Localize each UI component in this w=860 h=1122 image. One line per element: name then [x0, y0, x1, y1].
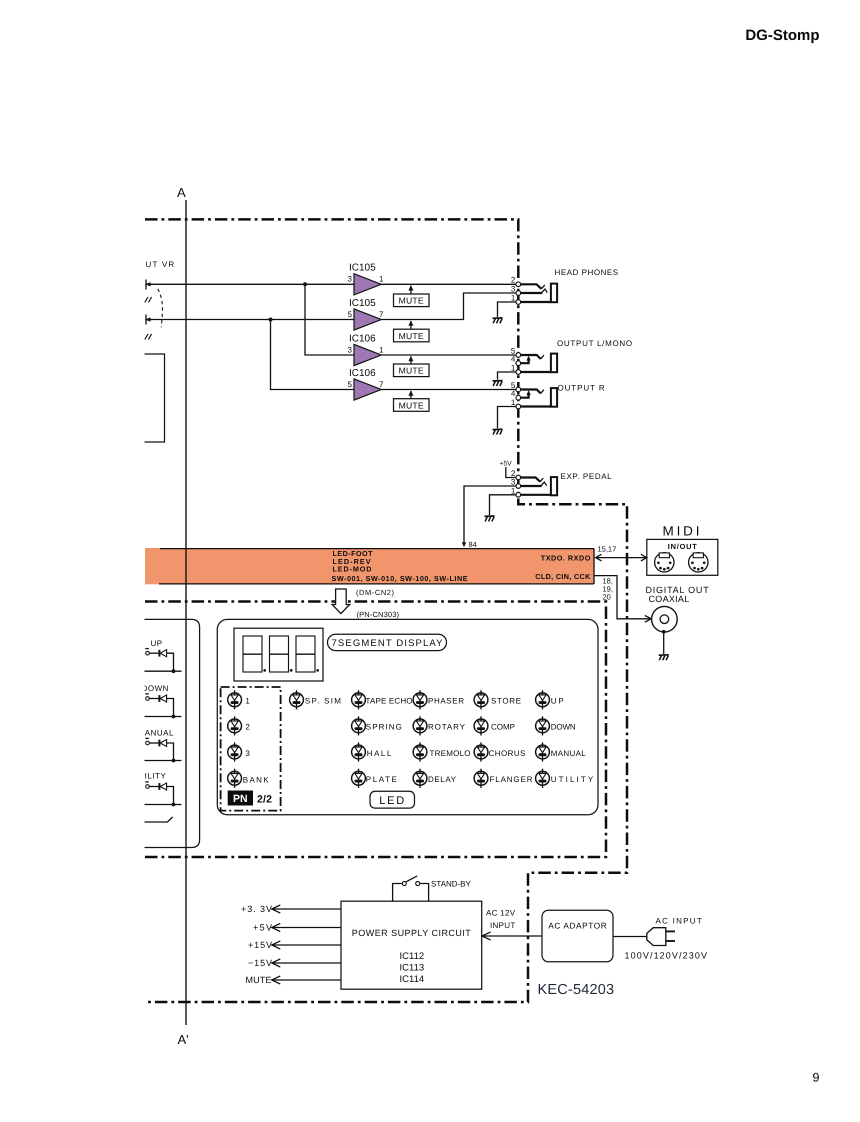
- LED MANUAL: [536, 742, 550, 761]
- rail MUTE: [246, 975, 342, 985]
- node UTILITY junction: [172, 803, 176, 807]
- wire IC105a out to HP pin2: [381, 283, 516, 285]
- bus border right: [593, 549, 595, 584]
- AC plug: [647, 928, 675, 946]
- diode D-DOWN: [159, 695, 166, 702]
- svg-text:1: 1: [511, 294, 516, 303]
- LED UTILITY: [536, 769, 550, 788]
- ground (EXP): [485, 516, 495, 521]
- wire VR2 to IC105 pin5: [151, 319, 355, 321]
- block (cut at page edge): [145, 354, 165, 442]
- label PN 2/2: [228, 791, 272, 806]
- wire OUTR pin1 to ground: [498, 407, 516, 429]
- svg-text:HEAD PHONES: HEAD PHONES: [555, 268, 620, 277]
- svg-text:7: 7: [379, 380, 384, 389]
- svg-text:MUTE: MUTE: [399, 296, 424, 306]
- LED STORE: [474, 690, 488, 709]
- svg-text:DG-Stomp: DG-Stomp: [745, 27, 819, 44]
- svg-text:7SEGMENT DISPLAY: 7SEGMENT DISPLAY: [332, 638, 444, 649]
- ground (OUTR): [493, 429, 503, 434]
- MUTE box 2: [394, 320, 430, 342]
- wire adaptor to plug: [613, 936, 647, 938]
- svg-text:CHORUS: CHORUS: [489, 749, 526, 758]
- svg-text:5: 5: [348, 380, 353, 389]
- jack OUTPUT R: [511, 381, 606, 407]
- svg-text:1: 1: [511, 398, 516, 407]
- svg-text:PHASER: PHASER: [428, 697, 464, 706]
- svg-text:AC ADAPTOR: AC ADAPTOR: [548, 920, 607, 930]
- LED DELAY: [413, 769, 427, 788]
- jack HEAD PHONES: [511, 268, 619, 303]
- switch row MANUAL: [138, 729, 174, 745]
- wire D-DOWN to node: [167, 699, 174, 717]
- wire junction down to IC106 pin3: [305, 284, 355, 355]
- svg-text:POWER SUPPLY CIRCUIT: POWER SUPPLY CIRCUIT: [352, 928, 472, 938]
- 7seg digit 3: [296, 636, 319, 672]
- bus highlight DM-CN2 (orange): [145, 548, 594, 584]
- svg-text:2: 2: [511, 276, 516, 285]
- svg-text:CLD, CIN, CCK: CLD, CIN, CCK: [535, 572, 591, 581]
- svg-text:OUTPUT R: OUTPUT R: [558, 384, 606, 393]
- wire D-MANUAL to node: [167, 743, 174, 761]
- DIN socket MIDI IN: [655, 553, 674, 572]
- wire D-UP to node: [167, 653, 174, 671]
- svg-text:1: 1: [511, 486, 516, 495]
- jack EXP. PEDAL: [511, 469, 613, 495]
- svg-text:2/2: 2/2: [257, 793, 272, 805]
- svg-text:2: 2: [245, 723, 250, 732]
- wire OUTL pin1 to ground: [498, 372, 516, 380]
- wire coaxial shield to ground: [663, 632, 665, 654]
- rail +3.3V: [241, 904, 341, 914]
- 7seg display outer box: [234, 628, 323, 681]
- svg-text:FLANGER: FLANGER: [490, 775, 533, 784]
- svg-text:3: 3: [511, 477, 516, 486]
- pin circles OUTL: [516, 353, 521, 375]
- connector arrow DM-CN2 to PN-CN303: [332, 589, 350, 614]
- jack OUTPUT L/MONO: [511, 339, 633, 373]
- svg-text:IC113: IC113: [400, 963, 425, 974]
- svg-text:15,17: 15,17: [598, 544, 617, 553]
- section line A-A': [185, 200, 187, 1025]
- DIN socket MIDI OUT: [689, 553, 708, 572]
- +5V supply (EXP): [499, 461, 515, 478]
- wire HP pin1 to ground: [498, 302, 516, 317]
- LED SP.SIM: [290, 690, 304, 709]
- diode D-MANUAL: [159, 740, 166, 747]
- MUTE box 4: [394, 390, 430, 411]
- label 7SEGMENT DISPLAY: [328, 634, 447, 650]
- svg-text:HALL: HALL: [367, 749, 392, 758]
- ground (VR lower): [145, 334, 152, 340]
- pin circles HP: [516, 282, 521, 304]
- MUTE box 3: [394, 356, 430, 377]
- svg-text:9: 9: [813, 1071, 820, 1085]
- svg-text:4: 4: [511, 389, 516, 398]
- wire row MANUAL bus: [145, 760, 182, 762]
- op-amp IC106 a: [348, 333, 384, 365]
- svg-text:MUTE: MUTE: [399, 400, 424, 410]
- board outline upper (dash-dot): [145, 219, 627, 1002]
- op-amp IC105 a: [348, 263, 384, 295]
- AC ADAPTOR box: [542, 910, 613, 962]
- svg-text:PN: PN: [233, 793, 248, 805]
- diode D-UP: [159, 650, 166, 657]
- svg-text:DELAY: DELAY: [428, 775, 457, 784]
- svg-text:84: 84: [469, 540, 477, 549]
- switch row DOWN: [142, 684, 169, 700]
- svg-text:MUTE: MUTE: [246, 975, 272, 985]
- svg-text:MUTE: MUTE: [399, 331, 424, 341]
- svg-text:MANUAL: MANUAL: [551, 749, 587, 758]
- LED BANK: [228, 769, 242, 788]
- wire IC105b out to HP pin3: [381, 293, 516, 320]
- svg-text:IN/OUT: IN/OUT: [668, 542, 697, 551]
- LED HALL: [352, 742, 366, 761]
- pin circles EXP: [516, 475, 521, 497]
- svg-text:+3. 3V: +3. 3V: [241, 904, 272, 914]
- LED PHASER: [413, 690, 427, 709]
- svg-text:A: A: [177, 185, 186, 200]
- switch board box (cut at page edge): [145, 619, 200, 847]
- wire junction down to IC106 pin5: [271, 320, 355, 390]
- power supply circuit box U-PS: [341, 901, 482, 989]
- wire stub below: [145, 817, 173, 822]
- svg-text:OUTPUT L/MONO: OUTPUT L/MONO: [557, 339, 633, 348]
- 7seg digit 1: [243, 636, 266, 672]
- wire row UP bus: [145, 670, 182, 672]
- svg-text:BANK: BANK: [243, 775, 270, 784]
- LED TAPE ECHO: [352, 690, 366, 709]
- svg-text:INPUT: INPUT: [490, 921, 516, 930]
- svg-text:1: 1: [379, 275, 384, 284]
- LED DOWN: [536, 716, 550, 735]
- LED 3: [228, 742, 242, 761]
- diode D-UTILITY: [159, 783, 166, 790]
- LED 2: [228, 716, 242, 735]
- svg-text:EXP. PEDAL: EXP. PEDAL: [561, 472, 613, 481]
- pin circles OUTR: [516, 387, 521, 409]
- svg-text:UP: UP: [151, 639, 163, 648]
- svg-text:3: 3: [348, 275, 353, 284]
- wire D-UTILITY to node: [167, 787, 174, 805]
- LED SPRING: [352, 716, 366, 735]
- svg-text:1: 1: [511, 364, 516, 373]
- LED CHORUS: [474, 742, 488, 761]
- wire EXP pin3 to bus pin84: [464, 486, 516, 544]
- svg-text:LED-MOD: LED-MOD: [333, 565, 372, 574]
- svg-text:UT VR: UT VR: [146, 260, 176, 269]
- svg-text:AC 12V: AC 12V: [486, 908, 516, 917]
- svg-text:DOWN: DOWN: [551, 723, 576, 732]
- bus border top: [160, 548, 594, 550]
- connector coaxial out: [652, 606, 678, 633]
- svg-text:1: 1: [379, 345, 384, 354]
- svg-text:LED: LED: [379, 795, 405, 807]
- svg-text:(PN-CN303): (PN-CN303): [357, 610, 400, 619]
- ground (HP): [493, 318, 503, 323]
- dashed group box LEDs 1-3/BANK: [221, 687, 281, 811]
- rail +15V: [248, 940, 341, 950]
- LED PLATE: [352, 769, 366, 788]
- svg-text:COMP: COMP: [491, 723, 515, 732]
- svg-text:20: 20: [603, 592, 611, 601]
- board outline display (dash-dot): [145, 602, 606, 858]
- LED UP: [536, 690, 550, 709]
- ground (VR upper): [145, 297, 152, 303]
- gang dashed link: [158, 289, 163, 328]
- bus border bottom: [159, 583, 594, 585]
- LED ROTARY: [413, 716, 427, 735]
- wire row DOWN bus: [145, 716, 182, 718]
- ground (coaxial): [659, 655, 669, 660]
- wire MIDI link (double arrow): [596, 554, 647, 561]
- svg-text:4: 4: [511, 355, 516, 364]
- LED 1: [228, 690, 242, 709]
- svg-text:(DM-CN2): (DM-CN2): [356, 588, 395, 597]
- 7seg digit 2: [270, 636, 293, 672]
- switch row UP: [145, 639, 162, 655]
- wire row UTILITY bus: [145, 804, 182, 806]
- op-amp IC106 b: [348, 368, 384, 400]
- LED FLANGER: [474, 769, 488, 788]
- svg-text:A': A': [178, 1032, 189, 1047]
- potentiometer VR wiper lower: [145, 315, 151, 325]
- wire IC106a out to OUTL pin5: [381, 354, 516, 356]
- potentiometer VR wiper upper: [145, 280, 151, 290]
- svg-text:5: 5: [348, 310, 353, 319]
- wire CLD/CIN/CCK to coaxial: [594, 576, 650, 619]
- svg-text:STAND-BY: STAND-BY: [431, 880, 472, 889]
- svg-text:IC106: IC106: [349, 333, 376, 344]
- page edge cover: [0, 0, 145, 1122]
- svg-text:100V/120V/230V: 100V/120V/230V: [625, 951, 708, 961]
- switch row UTILITY: [133, 772, 166, 789]
- svg-text:IC105: IC105: [349, 298, 376, 309]
- svg-text:+15V: +15V: [248, 940, 272, 950]
- node UP junction: [172, 669, 176, 673]
- svg-text:SW-001, SW-010, SW-100, SW-LIN: SW-001, SW-010, SW-100, SW-LINE: [332, 574, 468, 583]
- svg-text:+5V: +5V: [499, 461, 512, 468]
- svg-text:ROTARY: ROTARY: [428, 723, 466, 732]
- svg-text:TREMOLO: TREMOLO: [430, 749, 471, 758]
- svg-text:3: 3: [511, 284, 516, 293]
- svg-text:KEC-54203: KEC-54203: [538, 982, 615, 998]
- svg-text:IC105: IC105: [349, 263, 376, 274]
- svg-text:DOWN: DOWN: [142, 684, 169, 693]
- connector MIDI box: [647, 539, 718, 575]
- svg-text:PLATE: PLATE: [366, 775, 397, 784]
- wire EXP pin1 to ground: [490, 495, 516, 515]
- svg-text:7: 7: [379, 310, 384, 319]
- svg-text:IC112: IC112: [400, 951, 425, 962]
- svg-text:STORE: STORE: [491, 697, 521, 706]
- node junction on wire VR2: [269, 318, 273, 322]
- svg-text:TAPE ECHO: TAPE ECHO: [366, 697, 413, 706]
- ground (OUTL): [493, 381, 503, 386]
- svg-text:IC106: IC106: [349, 368, 376, 379]
- wire VR1 to IC105 pin3: [151, 283, 355, 285]
- wire AC adaptor to PSU: [482, 935, 542, 937]
- svg-text:TXDO. RXDO: TXDO. RXDO: [541, 554, 591, 563]
- op-amp IC105 b: [348, 298, 384, 330]
- switch STAND-BY: [393, 876, 472, 901]
- svg-text:IC114: IC114: [400, 974, 425, 985]
- svg-text:+5V: +5V: [253, 922, 272, 932]
- LED TREMOLO: [413, 742, 427, 761]
- label LED: [370, 791, 415, 808]
- svg-text:COAXIAL: COAXIAL: [649, 594, 691, 604]
- svg-text:−15V: −15V: [248, 958, 272, 968]
- svg-text:3: 3: [245, 749, 250, 758]
- panel board box: [217, 619, 598, 814]
- rail +5V: [253, 922, 341, 932]
- svg-text:MUTE: MUTE: [399, 366, 424, 376]
- LED COMP: [474, 716, 488, 735]
- rail -15V: [248, 958, 341, 968]
- wire IC106b out to OUTR pin5: [381, 389, 516, 391]
- svg-text:3: 3: [348, 345, 353, 354]
- svg-text:AC INPUT: AC INPUT: [656, 916, 703, 925]
- node junction on wire VR1: [303, 282, 307, 286]
- node MANUAL junction: [172, 759, 176, 763]
- MUTE box 1: [394, 285, 430, 307]
- node DOWN junction: [172, 715, 176, 719]
- svg-text:1: 1: [245, 697, 250, 706]
